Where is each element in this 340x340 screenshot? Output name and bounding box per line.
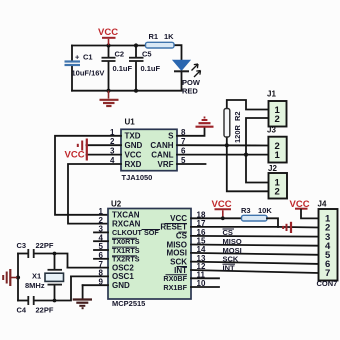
svg-text:2: 2 — [275, 187, 280, 198]
svg-text:0.1uF: 0.1uF — [113, 64, 133, 73]
svg-text:VCC: VCC — [125, 150, 142, 159]
svg-text:RED: RED — [182, 87, 198, 96]
svg-text:C3: C3 — [17, 241, 27, 250]
svg-text:MOSI: MOSI — [223, 246, 242, 255]
svg-text:8MHz: 8MHz — [25, 281, 45, 290]
svg-text:J4: J4 — [318, 200, 327, 209]
svg-text:CON7: CON7 — [317, 279, 338, 288]
svg-text:VRF: VRF — [158, 160, 174, 169]
svg-text:R2: R2 — [233, 111, 242, 121]
svg-text:VCC: VCC — [98, 27, 118, 38]
svg-text:22PF: 22PF — [36, 241, 54, 250]
svg-text:TXCAN: TXCAN — [112, 211, 140, 220]
svg-text:INT: INT — [223, 263, 236, 272]
svg-text:U2: U2 — [111, 200, 122, 209]
svg-text:1: 1 — [99, 207, 104, 216]
svg-text:1: 1 — [275, 150, 281, 161]
svg-text:10K: 10K — [258, 206, 272, 215]
svg-text:CANH: CANH — [150, 141, 173, 150]
svg-text:C4: C4 — [17, 306, 27, 315]
svg-text:CANL: CANL — [151, 150, 173, 159]
svg-text:OSC1: OSC1 — [112, 272, 134, 281]
svg-text:CS: CS — [223, 228, 233, 237]
svg-text:R1: R1 — [149, 32, 159, 41]
svg-text:MISO: MISO — [223, 237, 242, 246]
svg-text:GND: GND — [112, 281, 130, 290]
svg-text:120R: 120R — [233, 124, 242, 143]
svg-text:0.1uF: 0.1uF — [141, 64, 161, 73]
svg-text:RXD: RXD — [125, 160, 142, 169]
svg-text:2: 2 — [275, 114, 280, 125]
svg-text:SCK: SCK — [223, 255, 239, 264]
svg-text:OSC2: OSC2 — [112, 263, 134, 272]
svg-text:J2: J2 — [268, 164, 277, 173]
svg-text:7: 7 — [325, 268, 330, 279]
svg-text:MCP2515: MCP2515 — [112, 299, 145, 308]
svg-text:RX0BF: RX0BF — [163, 274, 187, 283]
svg-text:J1: J1 — [267, 90, 276, 99]
svg-text:TXD: TXD — [125, 132, 141, 141]
svg-text:S: S — [168, 132, 174, 141]
svg-text:+: + — [75, 53, 80, 62]
svg-text:RESET: RESET — [160, 223, 187, 232]
svg-text:J3: J3 — [267, 126, 276, 135]
svg-text:RXCAN: RXCAN — [112, 219, 141, 228]
svg-text:R3: R3 — [241, 206, 251, 215]
svg-text:2: 2 — [99, 216, 104, 225]
svg-text:22PF: 22PF — [36, 306, 54, 315]
svg-text:C1: C1 — [83, 53, 93, 62]
svg-text:10uF/16V: 10uF/16V — [72, 69, 105, 78]
svg-text:RX1BF: RX1BF — [163, 283, 187, 292]
svg-text:1K: 1K — [164, 32, 174, 41]
svg-text:GND: GND — [125, 141, 143, 150]
svg-text:TJA1050: TJA1050 — [122, 173, 153, 182]
svg-text:MOSI: MOSI — [167, 249, 187, 258]
svg-text:VCC: VCC — [65, 150, 85, 161]
svg-text:C2: C2 — [115, 50, 125, 59]
svg-text:X1: X1 — [32, 272, 41, 281]
svg-text:U1: U1 — [125, 118, 136, 127]
svg-text:C5: C5 — [142, 50, 152, 59]
